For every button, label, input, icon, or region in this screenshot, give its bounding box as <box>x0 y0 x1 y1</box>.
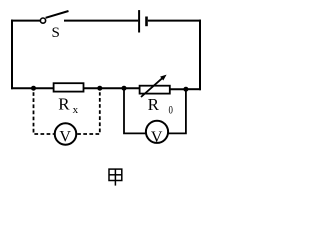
node A junction dot <box>31 86 36 91</box>
wire left vertical <box>11 20 13 90</box>
node D junction dot <box>183 87 188 92</box>
wire voltmeter V2 right <box>168 89 186 133</box>
wire top-right horizontal <box>148 20 201 22</box>
battery short plate (negative) <box>145 17 148 27</box>
rheostat R0 box <box>140 86 170 94</box>
wire right corner to node D <box>186 88 201 90</box>
wire right vertical <box>199 20 201 91</box>
node B junction dot <box>97 86 102 91</box>
node C junction dot <box>122 86 127 91</box>
switch S blade (open) <box>46 11 69 18</box>
rheostat R0 arrow shaft <box>141 78 163 97</box>
svg-text:S: S <box>52 25 60 41</box>
wire middle left (to Rx) <box>11 87 54 89</box>
svg-text:x: x <box>73 104 79 116</box>
voltmeter V1 <box>55 123 77 145</box>
resistor Rx <box>54 83 84 91</box>
switch S hinge circle <box>40 18 45 23</box>
voltmeter V2 <box>146 121 168 143</box>
dashed wire voltmeter V1 left <box>34 92 54 134</box>
wire middle between Rx and R0 <box>84 87 140 89</box>
svg-text:V: V <box>59 129 71 146</box>
svg-text:V: V <box>151 129 163 146</box>
rheostat R0 arrowhead <box>160 75 167 81</box>
wire top middle (switch to battery) <box>64 20 138 22</box>
svg-text:R: R <box>58 94 70 113</box>
wire top-left horizontal (battery loop) <box>11 20 40 22</box>
dashed wire voltmeter V1 right <box>77 92 100 134</box>
wire voltmeter V2 left <box>124 89 146 133</box>
svg-text:0: 0 <box>169 105 173 117</box>
svg-text:R: R <box>148 95 160 114</box>
wire middle right (R0 to node D) <box>170 88 187 90</box>
battery long plate (positive) <box>138 10 140 32</box>
label jia (甲) drawn as strokes <box>109 169 122 186</box>
